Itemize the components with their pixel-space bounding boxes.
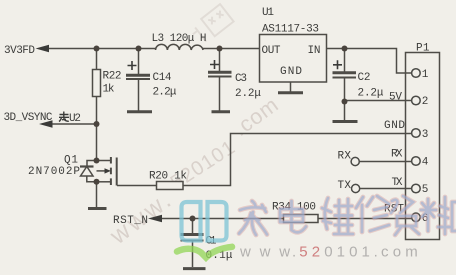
- svg-text:Q1: Q1: [64, 155, 78, 167]
- svg-text:GND: GND: [280, 66, 302, 78]
- svg-text:GND: GND: [384, 120, 405, 132]
- svg-text:2.2μ: 2.2μ: [153, 87, 177, 99]
- svg-text:.: .: [292, 244, 296, 261]
- svg-text:L3 120μ H: L3 120μ H: [152, 33, 207, 45]
- svg-text:OUT: OUT: [262, 45, 281, 57]
- svg-text:3V3FD: 3V3FD: [4, 45, 35, 57]
- svg-text:RX: RX: [338, 151, 352, 163]
- svg-text:U2: U2: [69, 113, 81, 125]
- svg-text:TX: TX: [338, 180, 352, 192]
- svg-text:3: 3: [422, 129, 429, 141]
- svg-text:C2: C2: [358, 72, 371, 84]
- svg-text:2N7002P: 2N7002P: [28, 166, 80, 178]
- svg-text:5: 5: [422, 184, 429, 196]
- svg-text:AS1117-33: AS1117-33: [262, 24, 319, 36]
- svg-text:www: www: [239, 244, 299, 261]
- svg-text:IN: IN: [308, 45, 321, 57]
- svg-text:P1: P1: [416, 43, 430, 55]
- svg-text:2: 2: [422, 96, 429, 108]
- svg-text:RX: RX: [391, 149, 403, 161]
- svg-text:com: com: [381, 244, 422, 261]
- svg-text:C14: C14: [153, 72, 172, 84]
- svg-text:1: 1: [422, 69, 429, 81]
- svg-text:C3: C3: [235, 73, 247, 85]
- svg-text:2.2μ: 2.2μ: [358, 88, 384, 100]
- svg-text:2.2μ: 2.2μ: [235, 88, 261, 100]
- svg-text:TX: TX: [392, 177, 403, 189]
- svg-text:.: .: [374, 244, 378, 261]
- svg-text:4: 4: [422, 156, 429, 168]
- svg-text:520101: 520101: [299, 244, 374, 261]
- svg-text:U1: U1: [262, 7, 274, 19]
- svg-text:3D_VSYNC: 3D_VSYNC: [4, 112, 53, 124]
- svg-text:1k: 1k: [103, 84, 115, 96]
- svg-text:R20 1k: R20 1k: [149, 171, 187, 183]
- svg-text:5V: 5V: [389, 92, 402, 104]
- svg-text:R22: R22: [103, 71, 122, 83]
- svg-text:RST_N: RST_N: [113, 215, 148, 227]
